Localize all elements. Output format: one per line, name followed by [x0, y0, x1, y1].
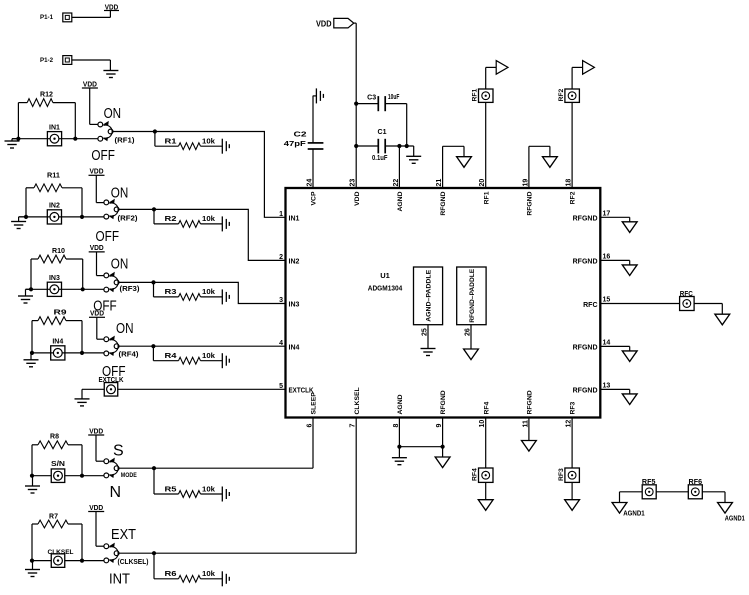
svg-text:VCP: VCP [311, 191, 318, 205]
svg-text:ON: ON [116, 320, 134, 337]
svg-text:47pF: 47pF [284, 141, 307, 148]
svg-text:MODE: MODE [121, 472, 138, 479]
wire P1-2 to ground [72, 60, 111, 71]
resistor R12 feedback [18, 91, 75, 138]
wire row 1 to IC [113, 129, 286, 217]
label S [113, 442, 124, 459]
wire pin 13 RFGND [600, 389, 629, 394]
connector RF2 [558, 88, 579, 102]
pin 17 RFGND [573, 211, 611, 223]
svg-text:15: 15 [603, 297, 611, 304]
label OFF row 3 [93, 297, 117, 314]
wire SLEEP net [119, 418, 313, 471]
svg-text:6: 6 [307, 424, 314, 428]
wire pin 12 RF3 [571, 418, 573, 469]
wire pin 19 RFGND [529, 146, 550, 188]
ground R3 [222, 289, 229, 304]
ground pin 19 [543, 157, 558, 168]
svg-text:RFC: RFC [583, 302, 597, 309]
label (RF4) [119, 350, 140, 359]
svg-text:0.1uF: 0.1uF [372, 155, 388, 162]
svg-text:RFGND: RFGND [527, 390, 534, 414]
connector P1-1 [40, 13, 72, 22]
junction dots CLKSEL [30, 559, 84, 563]
svg-text:AGND: AGND [397, 394, 404, 414]
svg-text:IN1: IN1 [49, 124, 60, 131]
connector S/N [32, 461, 104, 482]
pin 2 IN2 [279, 254, 299, 266]
svg-text:(CLKSEL): (CLKSEL) [118, 557, 149, 566]
power VDD flag [316, 18, 354, 28]
wire pin 15 RFC [600, 303, 679, 305]
wire RF6 to AGND1 [702, 492, 725, 503]
ground AGND1 right [718, 503, 745, 523]
ground R5 [222, 487, 229, 502]
pad AGND-PADDLE [414, 267, 443, 325]
svg-text:RF2: RF2 [558, 88, 565, 101]
ground (P1-2) [103, 71, 118, 78]
power VDD CLKSEL [88, 503, 104, 546]
svg-text:7: 7 [350, 424, 357, 428]
svg-text:VDD: VDD [90, 243, 105, 252]
ground RFC [715, 314, 730, 325]
wire pin 16 RFGND [600, 260, 629, 265]
label (RF3) [120, 284, 141, 293]
wire pin 9 RFGND [442, 418, 444, 458]
svg-text:26: 26 [465, 328, 472, 336]
junction dots row 3 [29, 287, 85, 291]
ground R6 [222, 571, 229, 586]
svg-text:10k: 10k [202, 216, 215, 223]
svg-text:CLKSEL: CLKSEL [354, 387, 361, 414]
svg-text:AGND: AGND [397, 191, 404, 211]
svg-text:C3: C3 [367, 94, 376, 101]
svg-text:R10: R10 [52, 248, 65, 255]
ground row 1 [5, 139, 20, 148]
svg-text:RFGND: RFGND [573, 259, 598, 266]
svg-text:RFGND: RFGND [573, 388, 598, 395]
pad RFGND-PADDLE [457, 267, 486, 325]
svg-text:ON: ON [104, 105, 122, 122]
svg-text:RF3: RF3 [558, 468, 565, 481]
ground RF4 [478, 500, 493, 511]
wire CLKSEL net [119, 418, 356, 556]
svg-text:RFGND: RFGND [440, 390, 447, 414]
pin 19 RFGND [522, 179, 533, 216]
svg-text:R5: R5 [165, 486, 177, 493]
svg-text:RFGND: RFGND [573, 345, 598, 352]
svg-text:10k: 10k [202, 486, 215, 493]
label ON row 1 [104, 105, 122, 122]
svg-text:SLEEP: SLEEP [311, 392, 318, 415]
svg-text:VDD: VDD [90, 309, 105, 318]
svg-text:R3: R3 [165, 289, 177, 296]
svg-text:AGND1: AGND1 [725, 516, 745, 523]
ground R1 [222, 139, 229, 154]
ground pin 9 [435, 457, 450, 468]
svg-text:IN3: IN3 [49, 275, 60, 282]
ground pin 8 [392, 458, 407, 465]
capacitor C3 10uF [356, 94, 407, 146]
pin 24 VCP [307, 179, 318, 206]
resistor R9 feedback [32, 310, 82, 353]
resistor R6 10k [154, 553, 222, 582]
svg-text:(RF1): (RF1) [115, 136, 136, 145]
wire P1-1 to VDD [72, 11, 111, 18]
node RF2 port [583, 61, 595, 75]
svg-text:IN2: IN2 [49, 203, 60, 210]
resistor R11 feedback [26, 173, 82, 217]
connector RF6 [688, 479, 702, 499]
svg-text:RFGND–PADDLE: RFGND–PADDLE [469, 268, 476, 322]
ground row 2 [11, 217, 26, 229]
svg-text:R9: R9 [54, 310, 67, 317]
svg-text:RFGND: RFGND [573, 216, 598, 223]
node RF1 port [496, 61, 508, 75]
wire row 2 to IC [119, 207, 286, 260]
ground pin 14 [622, 351, 637, 362]
svg-text:RF3: RF3 [570, 401, 577, 414]
label ON row 2 [111, 184, 129, 201]
svg-text:R11: R11 [47, 173, 60, 180]
label N [110, 484, 122, 501]
junction dots row 1 [16, 137, 77, 141]
label OFF row 2 [96, 228, 120, 245]
svg-text:25: 25 [422, 328, 429, 336]
svg-text:R2: R2 [165, 216, 177, 223]
label EXT [111, 526, 136, 543]
power VDD row 3 [89, 243, 105, 275]
pin 5 EXTCLK [279, 383, 313, 395]
svg-text:P1-1: P1-1 [40, 14, 53, 21]
svg-text:INT: INT [109, 570, 130, 587]
wire pin 21 RFGND [443, 146, 464, 188]
svg-text:3: 3 [279, 297, 283, 304]
svg-text:VDD: VDD [316, 18, 332, 28]
wire pin 8 AGND [397, 418, 401, 458]
ground RF3 [565, 500, 580, 511]
wire RF2 stub [572, 67, 583, 89]
connector IN2 [19, 203, 104, 224]
ground R4 [222, 353, 229, 368]
resistor R1 10k [155, 132, 222, 150]
svg-text:10k: 10k [202, 571, 215, 578]
resistor R4 10k [153, 346, 222, 364]
pin 13 RFGND [573, 383, 611, 395]
junction dots C1 net [397, 144, 409, 148]
pin 7 CLKSEL [350, 387, 361, 427]
junction dots row 2 [24, 215, 84, 219]
wire row 3 to IC [119, 280, 286, 303]
label (RF2) [118, 213, 139, 222]
svg-text:ADGM1304: ADGM1304 [368, 284, 403, 293]
svg-text:AGND–PADDLE: AGND–PADDLE [426, 269, 433, 321]
resistor R8 [32, 433, 82, 475]
wire row 4 to IC [119, 344, 286, 348]
pin 11 RFGND [522, 390, 533, 427]
ground EXTCLK [75, 389, 90, 406]
power VDD MODE [88, 426, 104, 461]
svg-text:RFGND: RFGND [527, 191, 534, 215]
switch (RF3) [104, 272, 119, 292]
wire VDD trunk [354, 23, 359, 188]
switch MODE [104, 458, 119, 478]
connector RF3 [558, 468, 579, 482]
ground pin 26 [464, 349, 479, 360]
ground pin 11 [522, 441, 537, 452]
ground pin 13 [622, 394, 637, 405]
connector RF1 [472, 88, 493, 102]
svg-text:R1: R1 [165, 139, 177, 146]
svg-text:5: 5 [279, 383, 283, 390]
svg-text:C1: C1 [378, 129, 387, 136]
pin 20 RF1 [479, 179, 490, 205]
pin 3 IN3 [279, 297, 299, 309]
ground R2 [222, 216, 229, 231]
svg-text:RF2: RF2 [570, 191, 577, 204]
svg-text:10k: 10k [202, 139, 215, 146]
svg-text:RF4: RF4 [483, 401, 490, 414]
wire pin 17 RFGND [600, 217, 629, 222]
label (CLKSEL) [118, 557, 149, 566]
connector CLKSEL [32, 549, 104, 567]
switch (RF2) [104, 199, 119, 219]
ground pin 17 [622, 222, 637, 233]
capacitor C1 0.1uF [356, 129, 414, 162]
svg-text:(RF3): (RF3) [120, 284, 141, 293]
pin 8 AGND [393, 394, 404, 427]
svg-text:10k: 10k [202, 289, 215, 296]
svg-text:(RF2): (RF2) [118, 213, 139, 222]
connector RFC [680, 291, 695, 311]
pin 10 RF4 [479, 401, 490, 427]
junction dots MODE [30, 474, 84, 478]
ground pin 25 [421, 349, 436, 356]
switch (RF4) [104, 336, 119, 356]
wire EXTCLK to IC pin 5 [82, 388, 286, 390]
svg-text:IN2: IN2 [289, 259, 300, 266]
wire AGND link [399, 445, 444, 449]
resistor R2 10k [154, 209, 222, 227]
svg-text:R12: R12 [40, 91, 53, 98]
svg-text:S: S [113, 442, 124, 459]
power VDD row 2 [89, 167, 105, 203]
resistor R10 feedback [31, 248, 83, 289]
pin 21 RFGND [436, 179, 447, 216]
svg-text:R4: R4 [165, 353, 177, 360]
svg-text:N: N [110, 484, 122, 501]
connector IN3 [26, 275, 104, 296]
wire RF5 to AGND1 [620, 492, 643, 503]
label ON row 4 [116, 320, 134, 337]
pin 16 RFGND [573, 254, 611, 266]
svg-text:VDD: VDD [89, 503, 104, 512]
svg-text:VDD: VDD [83, 79, 98, 88]
svg-text:OFF: OFF [91, 147, 115, 164]
svg-text:P1-2: P1-2 [40, 57, 53, 64]
switch (RF1) [98, 121, 113, 141]
connector EXTCLK [99, 375, 125, 396]
connector P1-2 [40, 56, 72, 65]
resistor R3 10k [154, 282, 223, 300]
ground C2 [313, 88, 323, 103]
svg-text:RF1: RF1 [483, 191, 490, 204]
pin 6 SLEEP [307, 392, 318, 428]
svg-text:EXT: EXT [111, 526, 136, 543]
wire pin 22 AGND [398, 146, 400, 188]
svg-text:IN1: IN1 [289, 216, 300, 223]
op-amp U1 ADGM1304 body [286, 188, 601, 418]
svg-text:IN4: IN4 [289, 344, 300, 351]
pin 18 RF2 [566, 179, 577, 205]
ground C1 [406, 146, 421, 163]
svg-text:RF4: RF4 [472, 468, 479, 481]
wire pin 14 RFGND [600, 346, 629, 351]
svg-text:17: 17 [603, 211, 611, 218]
pin 12 RF3 [566, 401, 577, 427]
ground MODE row [25, 476, 40, 493]
svg-text:VDD: VDD [89, 426, 104, 435]
svg-text:10k: 10k [202, 353, 215, 360]
svg-text:IN3: IN3 [289, 302, 300, 309]
label INT [109, 570, 130, 587]
ground CLKSEL row [25, 561, 40, 577]
ground row 3 [18, 289, 33, 303]
svg-text:AGND1: AGND1 [623, 510, 645, 517]
connector IN1 [12, 124, 98, 145]
switch CLKSEL [104, 543, 119, 563]
label ON row 3 [111, 255, 129, 272]
pin 26 [465, 325, 472, 349]
svg-text:13: 13 [603, 383, 611, 390]
wire RF1 stub [486, 67, 497, 89]
svg-text:U1: U1 [380, 271, 390, 280]
label OFF row 4 [102, 363, 126, 380]
connector IN4 [31, 339, 104, 360]
power VDD row 1 [82, 79, 98, 124]
pin 14 RFGND [573, 340, 611, 352]
svg-text:4: 4 [279, 340, 283, 347]
pin 22 AGND [393, 179, 404, 212]
pin 25 [422, 325, 429, 349]
svg-text:R7: R7 [49, 514, 58, 521]
wire pin 10 RF4 [485, 418, 487, 469]
svg-text:S/N: S/N [51, 461, 65, 468]
ground pin 16 [622, 265, 637, 276]
svg-text:R8: R8 [50, 433, 59, 440]
svg-text:C2: C2 [294, 130, 307, 139]
pin 4 IN4 [279, 340, 299, 352]
pin 9 RFGND [436, 390, 447, 427]
svg-text:VDD: VDD [354, 191, 361, 205]
resistor R7 [32, 514, 82, 561]
ground row 4 [24, 353, 39, 367]
wire RF3 to ground [571, 482, 573, 499]
svg-text:ON: ON [111, 255, 129, 272]
svg-text:ON: ON [111, 184, 129, 201]
wire RF4 to ground [485, 482, 487, 499]
svg-text:10uF: 10uF [388, 94, 400, 101]
connector RF5 [642, 479, 656, 499]
svg-text:(RF4): (RF4) [119, 350, 140, 359]
svg-text:14: 14 [603, 340, 611, 347]
label (RF1) [115, 136, 136, 145]
wire pin 11 RFGND [528, 418, 530, 441]
connector RF4 [472, 468, 493, 482]
wire pin 20 RF1 [485, 102, 487, 188]
junction dots row 4 [30, 351, 84, 355]
svg-text:16: 16 [603, 254, 611, 261]
wire RF5 to RF6 [656, 491, 688, 493]
power VDD row 4 [89, 309, 105, 340]
wire pin 18 RF2 [571, 102, 573, 188]
power VDD (P1-1) [104, 4, 119, 11]
label OFF row 1 [91, 147, 115, 164]
capacitor C2 47pF [284, 96, 324, 188]
label MODE [121, 472, 138, 479]
svg-text:RF1: RF1 [472, 88, 479, 101]
pin 1 IN1 [279, 211, 299, 223]
pin 23 VDD [350, 179, 361, 206]
ground AGND1 left [612, 503, 645, 518]
ground pin 21 [457, 157, 472, 168]
svg-text:RFGND: RFGND [440, 191, 447, 215]
svg-text:2: 2 [279, 254, 283, 261]
wire RFC to ground [694, 304, 722, 315]
svg-text:VDD: VDD [90, 167, 105, 176]
svg-text:1: 1 [279, 211, 283, 218]
pin 15 RFC [583, 297, 610, 309]
resistor R5 10k [154, 468, 222, 497]
svg-text:R6: R6 [165, 571, 177, 578]
svg-text:IN4: IN4 [52, 339, 63, 346]
